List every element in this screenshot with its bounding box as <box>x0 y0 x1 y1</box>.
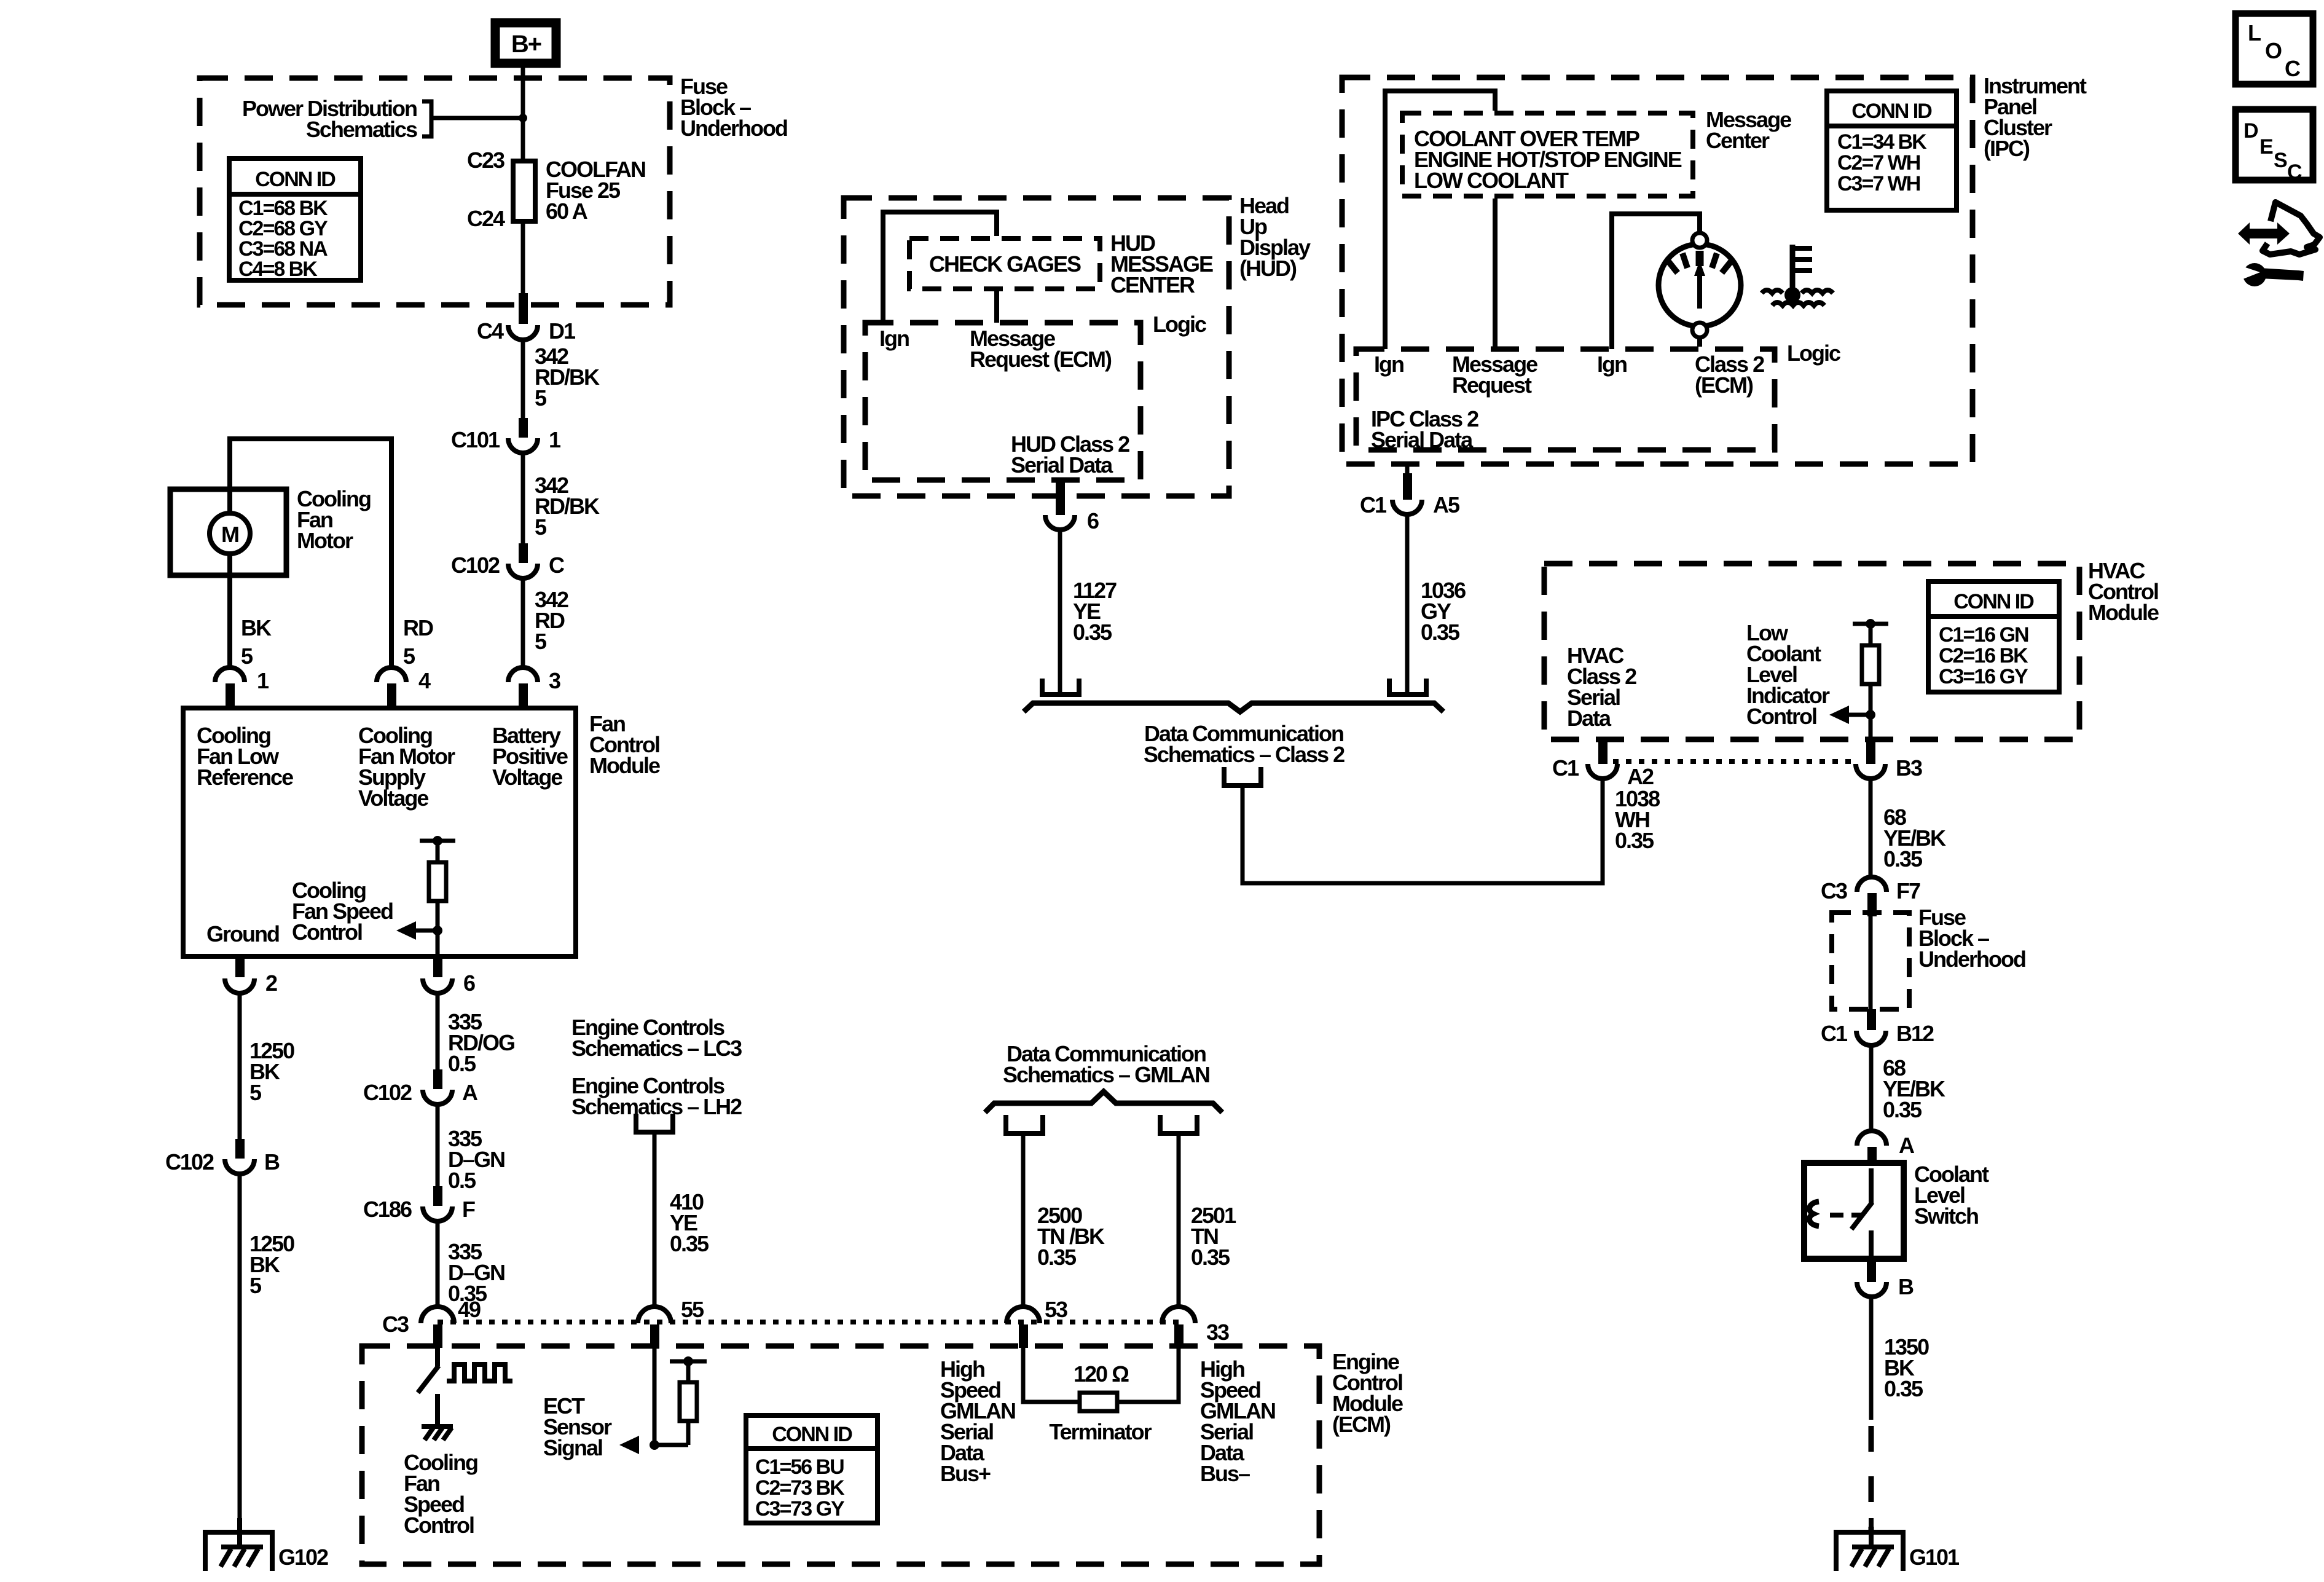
Instrument Panel Cluster dashed box <box>1342 73 2087 464</box>
svg-text:CENTER: CENTER <box>1110 272 1195 297</box>
svg-text:Module: Module <box>2088 600 2159 625</box>
label Message Request (ECM) (HUD) <box>970 326 1112 372</box>
off-page reference symbol (engine controls) <box>636 1114 673 1132</box>
coolant temperature symbol (thermometer) <box>1762 245 1833 305</box>
pin 53 connector (ECM) <box>1007 1297 1067 1348</box>
svg-text:Request: Request <box>1452 372 1532 398</box>
ground G101 <box>1836 1518 1960 1571</box>
motor M symbol <box>210 513 250 554</box>
svg-text:0.35: 0.35 <box>1883 1097 1922 1122</box>
connector C1/A5 (IPC) <box>1360 464 1460 517</box>
svg-text:C: C <box>549 553 565 578</box>
svg-text:Serial Data: Serial Data <box>1371 427 1474 452</box>
wire B to G101, circuit 1350 BK 0.35 <box>1871 1298 1929 1420</box>
connector B (coolant level switch) <box>1857 1259 1914 1299</box>
svg-text:CHECK GAGES: CHECK GAGES <box>929 251 1081 277</box>
label RD 5 <box>403 615 433 669</box>
svg-text:C1: C1 <box>1552 755 1579 781</box>
svg-text:5: 5 <box>535 514 547 540</box>
svg-text:A5: A5 <box>1433 492 1460 517</box>
wire Ign to gauge (IPC) <box>1612 214 1700 349</box>
svg-text:6: 6 <box>1087 508 1099 533</box>
svg-text:1: 1 <box>549 427 561 452</box>
ECT sensor pull-up resistor (ECM) <box>650 1348 707 1450</box>
wire B3 to C3/F7, circuit 68 YE/BK 0.35 <box>1871 779 1946 877</box>
pin 3 connector (fan control module) <box>508 667 560 709</box>
svg-text:Ground: Ground <box>206 921 279 946</box>
svg-text:Center: Center <box>1706 128 1770 153</box>
label Engine Controls Schematics LC3 / LH2 <box>571 1015 742 1119</box>
off-page reference symbol (HUD class 2) <box>1042 679 1079 695</box>
svg-text:B3: B3 <box>1896 755 1922 781</box>
LOC icon box <box>2236 14 2313 84</box>
pin 6 connector (HUD) <box>1045 480 1099 533</box>
svg-text:C: C <box>2285 56 2301 81</box>
label Cooling Fan Speed Control <box>292 878 393 945</box>
cooling fan motor box <box>170 486 371 575</box>
svg-text:M: M <box>221 522 238 547</box>
wire junction to bracket <box>431 116 523 120</box>
svg-text:C1=16 GN: C1=16 GN <box>1939 623 2028 647</box>
svg-text:Ign: Ign <box>1597 352 1627 377</box>
svg-text:C2=16 BK: C2=16 BK <box>1939 644 2028 667</box>
label Low Coolant Level Indicator Control <box>1746 620 1830 729</box>
dotted ECM connector line <box>438 1320 1180 1324</box>
svg-text:60 A: 60 A <box>546 199 588 224</box>
svg-text:0.35: 0.35 <box>1037 1245 1077 1270</box>
svg-text:E: E <box>2259 135 2273 159</box>
svg-text:Control: Control <box>292 919 362 945</box>
wire CHECK GAGES to logic (HUD) <box>994 291 999 323</box>
connector C3/49 (ECM) <box>382 1297 481 1348</box>
Fuse Block - Underhood small dashed box <box>1832 905 2025 1009</box>
connector C186/F <box>363 1186 475 1222</box>
svg-text:O: O <box>2265 38 2282 63</box>
svg-text:Bus–: Bus– <box>1200 1461 1250 1486</box>
svg-text:5: 5 <box>249 1273 262 1298</box>
B+ battery terminal <box>495 23 556 63</box>
label ECT Sensor Signal <box>543 1393 612 1460</box>
svg-text:C101: C101 <box>451 427 500 452</box>
wire C4 to C101, circuit 342 RD/BK 5 <box>523 340 600 419</box>
label Class 2 (ECM) <box>1695 352 1764 398</box>
Fuse Block - Underhood (dashed box) <box>200 78 670 305</box>
wire motor bottom to pin 1, BK 5 <box>230 554 272 670</box>
svg-text:C1=34 BK: C1=34 BK <box>1837 130 1927 154</box>
svg-text:Voltage: Voltage <box>492 765 562 790</box>
svg-text:C2=73 BK: C2=73 BK <box>755 1476 845 1500</box>
svg-text:CONN ID: CONN ID <box>1953 590 2034 613</box>
label IPC Class 2 Serial Data <box>1371 406 1478 452</box>
svg-text:0.35: 0.35 <box>670 1231 709 1256</box>
wire B+ to fuse block <box>521 68 525 118</box>
svg-text:C186: C186 <box>363 1197 412 1222</box>
svg-text:A: A <box>462 1080 478 1105</box>
wire HUD pin 6 to class 2 reference, circuit 1127 YE 0.35 <box>1060 530 1117 693</box>
wire C186/F to C3/49, circuit 335 D-GN 0.35 <box>438 1221 504 1309</box>
svg-text:Signal: Signal <box>543 1435 602 1460</box>
wire to pin 33, circuit 2501 TN 0.35 <box>1179 1133 1236 1309</box>
internal speed control resistor (fan control module) <box>420 836 455 956</box>
brace GMLAN <box>985 1092 1222 1112</box>
wire IPC A5 to class 2 reference, circuit 1036 GY 0.35 <box>1407 514 1466 693</box>
svg-text:C3=7 WH: C3=7 WH <box>1837 172 1920 195</box>
svg-text:C1=56 BU: C1=56 BU <box>755 1455 844 1479</box>
label Cooling Fan Motor Supply Voltage <box>358 723 455 811</box>
svg-text:B12: B12 <box>1896 1021 1934 1046</box>
svg-text:Control: Control <box>404 1513 474 1538</box>
svg-text:C: C <box>2287 160 2302 184</box>
svg-text:33: 33 <box>1206 1320 1229 1345</box>
svg-text:Underhood: Underhood <box>680 116 787 141</box>
pin 2 connector (fan control module) <box>225 956 277 996</box>
HUD logic dashed box <box>865 312 1206 480</box>
svg-text:C3: C3 <box>1821 878 1847 903</box>
svg-text:C3=16 GY: C3=16 GY <box>1939 665 2028 688</box>
IPC logic dashed box <box>1356 340 1840 450</box>
svg-text:5: 5 <box>249 1080 262 1105</box>
fan control module box <box>183 708 660 956</box>
svg-text:0.35: 0.35 <box>1421 620 1460 645</box>
svg-text:C23: C23 <box>467 148 504 173</box>
svg-text:CONN ID: CONN ID <box>255 168 336 191</box>
internal ground (ECM speed control) <box>422 1427 453 1440</box>
svg-text:Motor: Motor <box>297 528 353 553</box>
svg-text:C3: C3 <box>382 1312 409 1337</box>
svg-text:Logic: Logic <box>1787 340 1840 366</box>
wire pin 2 to C102/B, circuit 1250 BK 5 <box>240 993 294 1140</box>
svg-text:S: S <box>2274 149 2287 172</box>
svg-text:A: A <box>1899 1133 1915 1158</box>
svg-text:3: 3 <box>549 668 560 693</box>
Head Up Display dashed box <box>844 193 1311 496</box>
svg-text:Module: Module <box>589 753 660 778</box>
HVAC Control Module dashed box <box>1544 558 2159 739</box>
node junction on B+ feed <box>519 114 527 122</box>
svg-text:D: D <box>2244 119 2258 143</box>
svg-text:G102: G102 <box>278 1545 328 1570</box>
svg-text:C102: C102 <box>451 553 500 578</box>
svg-text:Schematics – GMLAN: Schematics – GMLAN <box>1003 1062 1209 1087</box>
svg-text:C1: C1 <box>1360 492 1387 517</box>
DESC icon box <box>2236 109 2313 184</box>
svg-text:(IPC): (IPC) <box>1984 136 2030 161</box>
CONN ID table (HVAC) <box>1928 581 2059 692</box>
svg-text:0.35: 0.35 <box>1883 846 1923 872</box>
wire gauge to logic (IPC) <box>1697 337 1702 347</box>
svg-text:Voltage: Voltage <box>358 785 428 811</box>
label Power Distribution Schematics <box>242 96 417 142</box>
dotted HVAC connector line <box>1613 759 1857 764</box>
CONN ID table (fuse block underhood) <box>229 159 361 281</box>
svg-text:C102: C102 <box>165 1149 214 1175</box>
svg-text:D1: D1 <box>549 318 576 344</box>
svg-text:0.5: 0.5 <box>448 1168 476 1193</box>
svg-text:0.5: 0.5 <box>448 1051 476 1076</box>
svg-text:C2=7 WH: C2=7 WH <box>1837 151 1920 175</box>
internal control arrow (HVAC) <box>1829 706 1871 724</box>
label HUD MESSAGE CENTER <box>1110 230 1213 297</box>
wrench icon <box>2240 263 2304 286</box>
svg-text:Control: Control <box>1746 704 1816 729</box>
internal control arrow (fan control module) <box>396 921 438 940</box>
svg-text:0.35: 0.35 <box>1884 1376 1923 1401</box>
svg-text:Data: Data <box>1567 706 1612 731</box>
svg-text:RD: RD <box>403 615 433 640</box>
internal indicator driver resistor (HVAC) <box>1853 619 1888 739</box>
svg-text:Schematics – Class 2: Schematics – Class 2 <box>1144 742 1345 767</box>
wire message request (IPC) <box>1493 199 1498 347</box>
GMLAN terminator resistor 120 ohm <box>1023 1348 1179 1444</box>
svg-text:BK: BK <box>241 615 272 640</box>
off-page reference symbol (class 2 to HVAC) <box>1224 767 1261 785</box>
label Message Request (IPC) <box>1452 352 1537 398</box>
label HUD Class 2 Serial Data <box>1011 431 1129 478</box>
svg-text:5: 5 <box>535 629 547 654</box>
wire C102/B to G102, circuit 1250 BK 5 <box>240 1174 294 1532</box>
internal switch cooling fan speed control (ECM) <box>418 1348 439 1427</box>
svg-text:Bus+: Bus+ <box>940 1461 991 1486</box>
wire motor top to pin 4 <box>230 439 391 670</box>
CONN ID table (IPC) <box>1827 91 1957 210</box>
svg-text:B: B <box>264 1149 280 1175</box>
svg-text:5: 5 <box>241 643 253 669</box>
off-page reference symbol (GMLAN bus-) <box>1160 1115 1197 1133</box>
svg-text:Logic: Logic <box>1153 312 1206 337</box>
wire pin 6 to C102/A, circuit 335 RD/OG 0.5 <box>438 993 514 1076</box>
svg-text:2: 2 <box>265 970 277 996</box>
svg-text:A2: A2 <box>1627 764 1654 789</box>
label High Speed GMLAN Serial Data Bus+ <box>940 1356 1015 1486</box>
svg-text:4: 4 <box>418 668 431 693</box>
svg-text:53: 53 <box>1045 1297 1067 1322</box>
svg-text:55: 55 <box>681 1297 704 1322</box>
connector C101/1 <box>451 418 561 453</box>
message center dashed box (IPC) <box>1402 113 1693 196</box>
connector A (coolant level switch) <box>1857 1131 1915 1165</box>
svg-text:C3=73 GY: C3=73 GY <box>755 1497 845 1521</box>
svg-text:C24: C24 <box>467 206 505 231</box>
pin 1 connector (fan control module) <box>215 667 269 709</box>
wire C102 to fan control module pin 3, circuit 342 RD 5 <box>523 578 568 667</box>
svg-text:C4=8 BK: C4=8 BK <box>238 258 318 281</box>
label Data Communication Schematics - Class 2 <box>1144 721 1345 767</box>
svg-text:1: 1 <box>257 668 269 693</box>
svg-text:C102: C102 <box>363 1080 412 1105</box>
connector C1/B12 (fuse block) <box>1821 1009 1934 1046</box>
pin 4 connector (fan control module) <box>377 667 431 709</box>
connector C102/B <box>165 1139 280 1175</box>
svg-text:F: F <box>462 1197 475 1222</box>
fuse COOLFAN Fuse 25 60A <box>513 157 645 224</box>
connector C4/D1 <box>477 293 576 344</box>
connector B3 (HVAC) <box>1856 739 1922 781</box>
connector C102/A <box>363 1069 478 1105</box>
svg-text:120 Ω: 120 Ω <box>1074 1361 1129 1387</box>
label Message Center <box>1706 107 1791 153</box>
svg-text:Terminator: Terminator <box>1049 1419 1152 1444</box>
off-page reference symbol (GMLAN bus+) <box>1006 1115 1043 1133</box>
svg-text:G101: G101 <box>1909 1545 1960 1570</box>
wire through fuse block <box>1869 916 1873 1012</box>
label circuit 1038 WH 0.35 <box>1615 786 1660 853</box>
svg-text:0.35: 0.35 <box>1615 828 1654 853</box>
svg-text:Ign: Ign <box>879 326 909 351</box>
svg-text:0.35: 0.35 <box>1191 1245 1230 1270</box>
svg-text:CONN ID: CONN ID <box>1851 100 1932 123</box>
svg-text:Underhood: Underhood <box>1918 946 2025 972</box>
ECT sensor signal arrow <box>619 1436 639 1454</box>
svg-text:(ECM): (ECM) <box>1332 1412 1391 1437</box>
svg-text:Reference: Reference <box>197 765 293 790</box>
svg-text:(HUD): (HUD) <box>1239 256 1297 281</box>
pin 33 connector (ECM) <box>1162 1307 1229 1348</box>
brace class 2 <box>1024 703 1443 712</box>
svg-text:B+: B+ <box>511 31 541 58</box>
svg-text:0.35: 0.35 <box>1073 620 1112 645</box>
wire to ECM pin 55, circuit 410 YE 0.35 <box>654 1132 709 1309</box>
pin 55 connector (ECM) <box>638 1297 704 1348</box>
label Battery Positive Voltage <box>492 723 568 790</box>
svg-text:CONN ID: CONN ID <box>772 1423 852 1446</box>
label Data Communication Schematics - GMLAN <box>1003 1041 1209 1087</box>
label Cooling Fan Low Reference <box>197 723 293 790</box>
pin 6 connector (fan control module) <box>423 956 475 996</box>
label High Speed GMLAN Serial Data Bus- <box>1200 1356 1275 1486</box>
svg-text:6: 6 <box>463 970 475 996</box>
ground G102 <box>205 1532 328 1571</box>
svg-text:Schematics – LC3: Schematics – LC3 <box>571 1036 742 1061</box>
wire fuse to C4 <box>521 221 525 295</box>
wire to pin 53, circuit 2500 TN/BK 0.35 <box>1023 1133 1105 1309</box>
float link dashes <box>1830 1213 1863 1218</box>
connector view icon (double arrow and part outline) <box>2238 202 2320 254</box>
connector C1/A2 (HVAC) <box>1552 739 1654 789</box>
wire into G102 <box>237 1518 242 1547</box>
wire B12 to A, circuit 68 YE/BK 0.35 <box>1871 1045 1945 1131</box>
Engine Control Module dashed box <box>362 1346 1403 1564</box>
svg-text:Request (ECM): Request (ECM) <box>970 347 1112 372</box>
svg-text:Switch: Switch <box>1914 1203 1978 1229</box>
wire Ign to message center (IPC) <box>1385 91 1495 349</box>
svg-text:Ign: Ign <box>1374 352 1403 377</box>
label HVAC Class 2 Serial Data <box>1567 643 1636 731</box>
connector C3/F7 (fuse block) <box>1821 877 1920 916</box>
svg-text:(ECM): (ECM) <box>1695 372 1753 398</box>
wire class 2 reference to HVAC C1/A2 <box>1242 781 1603 883</box>
svg-text:C1: C1 <box>1821 1021 1848 1046</box>
dashed wire segment to G101 <box>1869 1426 1874 1532</box>
label Cooling Fan Speed Control (ECM) <box>404 1450 477 1538</box>
svg-text:Schematics – LH2: Schematics – LH2 <box>571 1094 742 1119</box>
svg-text:B: B <box>1898 1274 1914 1299</box>
PWM square wave symbol <box>447 1364 512 1381</box>
off-page reference symbol (IPC class 2) <box>1389 679 1426 695</box>
switch contacts (coolant level switch) <box>1851 1168 1872 1260</box>
CONN ID table (ECM) <box>746 1415 877 1523</box>
svg-text:F7: F7 <box>1896 878 1920 903</box>
svg-text:5: 5 <box>403 643 415 669</box>
svg-text:49: 49 <box>458 1297 481 1322</box>
wire C101 to C102, circuit 342 RD/BK 5 <box>523 453 600 545</box>
svg-text:5: 5 <box>535 385 547 411</box>
wire Ign to CHECK GAGES (HUD) <box>883 212 997 323</box>
bracket to Power Distribution Schematics <box>422 101 431 136</box>
svg-text:Serial Data: Serial Data <box>1011 452 1113 478</box>
connector C102/C <box>451 543 565 578</box>
coolant temperature gauge (IPC) <box>1659 233 1741 337</box>
svg-text:L: L <box>2248 20 2261 45</box>
coolant level switch box <box>1804 1162 1989 1259</box>
wire C102/A to C186/F, circuit 335 D-GN 0.5 <box>438 1104 504 1193</box>
svg-text:C4: C4 <box>477 318 504 344</box>
float symbol (coolant level switch) <box>1810 1202 1819 1226</box>
svg-text:Schematics: Schematics <box>306 117 417 142</box>
svg-text:LOW COOLANT: LOW COOLANT <box>1414 168 1569 193</box>
CHECK GAGES indicator dashed box <box>909 238 1100 289</box>
label Fuse Block - Underhood <box>680 74 787 141</box>
wire junction to fuse <box>521 118 525 161</box>
